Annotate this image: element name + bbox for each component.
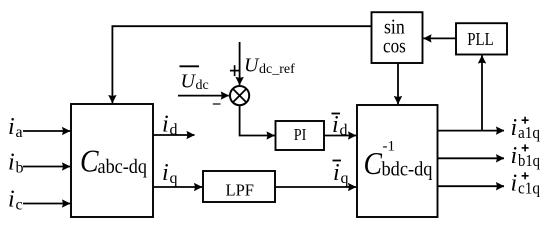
svg-text:i: i — [8, 187, 15, 213]
svg-text:C: C — [364, 145, 383, 181]
svg-text:i: i — [162, 112, 169, 138]
svg-text:q: q — [170, 170, 178, 187]
svg-text:i: i — [511, 115, 518, 141]
svg-text:PLL: PLL — [467, 29, 494, 49]
svg-text:bdc-dq: bdc-dq — [382, 160, 433, 181]
svg-text:c1q: c1q — [518, 179, 540, 198]
svg-text:i: i — [511, 171, 518, 197]
svg-text:abc-dq: abc-dq — [98, 157, 148, 178]
svg-text:-1: -1 — [383, 139, 396, 155]
svg-text:i: i — [511, 143, 518, 169]
svg-text:d: d — [170, 122, 178, 139]
svg-text:b1q: b1q — [518, 151, 540, 170]
svg-text:i: i — [162, 160, 169, 186]
svg-text:PI: PI — [294, 125, 307, 144]
svg-text:dc_ref: dc_ref — [259, 62, 295, 77]
svg-text:cos: cos — [383, 34, 406, 58]
svg-text:c: c — [16, 197, 23, 214]
svg-text:d: d — [340, 122, 348, 139]
svg-text:b: b — [16, 160, 24, 177]
svg-text:U: U — [181, 71, 197, 93]
svg-text:C: C — [80, 143, 99, 179]
svg-text:q: q — [341, 170, 349, 187]
svg-text:LPF: LPF — [226, 181, 255, 200]
svg-text:dc: dc — [196, 78, 209, 93]
svg-text:i: i — [333, 160, 340, 186]
svg-text:i: i — [332, 112, 339, 138]
svg-text:U: U — [244, 54, 260, 76]
svg-text:a1q: a1q — [518, 123, 540, 142]
svg-text:i: i — [8, 114, 15, 140]
svg-text:a: a — [16, 124, 23, 141]
svg-text:i: i — [8, 150, 15, 176]
